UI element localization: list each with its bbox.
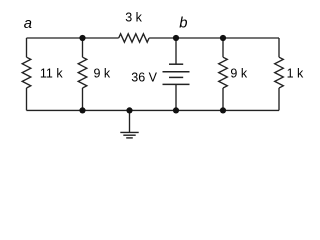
resistor R 11k zigzag (22, 57, 31, 88)
node dot top at 9k-right (220, 35, 226, 41)
wire: bottom rail (27, 109, 280, 111)
battery V1 plate short lower (169, 76, 183, 78)
svg-text:b: b (179, 16, 187, 32)
wire: top rail left segment (a to 3k) (27, 37, 119, 39)
battery V1 plate long upper (163, 71, 190, 73)
wire: 9k-left branch bottom stub (82, 88, 84, 110)
svg-text:a: a (24, 16, 32, 32)
node dot battery bottom (173, 107, 179, 113)
wire: top rail right segment (3k to right corner) (149, 37, 279, 39)
svg-text:9 k: 9 k (94, 67, 111, 81)
node dot top at 9k-left (79, 35, 85, 41)
svg-text:9 k: 9 k (230, 67, 247, 81)
svg-text:36 V: 36 V (131, 70, 157, 84)
ground stem (129, 110, 131, 132)
battery V1 plate short top (169, 63, 183, 65)
wire: 9k-right branch top stub (222, 38, 224, 57)
node dot b (battery top) (173, 35, 179, 41)
battery V1 top lead (175, 38, 177, 64)
ground bar 3 (126, 137, 133, 139)
wire: 9k-right branch bottom stub (222, 88, 224, 110)
battery V1 bottom lead (175, 84, 177, 110)
resistor R 9k left zigzag (78, 57, 87, 88)
node dot ground junction (126, 107, 132, 113)
svg-text:3 k: 3 k (125, 11, 142, 25)
wire: 9k-left branch top stub (82, 38, 84, 57)
resistor R 9k right zigzag (219, 57, 228, 88)
svg-text:11 k: 11 k (40, 67, 63, 81)
ground bar 1 (120, 131, 138, 133)
resistor R 1k zigzag (275, 57, 284, 88)
wire: left edge bottom stub (26, 88, 28, 110)
ground bar 2 (123, 134, 135, 136)
node dot bottom at 9k-right (220, 107, 226, 113)
wire: right edge top stub (278, 38, 280, 57)
battery V1 plate long bottom (163, 83, 190, 85)
node dot bottom at 9k-left (79, 107, 85, 113)
svg-text:1 k: 1 k (287, 67, 304, 81)
wire: right edge bottom stub (278, 88, 280, 110)
resistor R 3k (horizontal) (119, 34, 149, 42)
wire: left edge top stub (26, 38, 28, 57)
